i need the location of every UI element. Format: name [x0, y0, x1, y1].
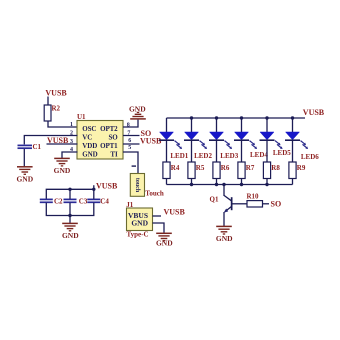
svg-text:C3: C3 — [79, 197, 88, 205]
svg-text:OPT2: OPT2 — [100, 125, 118, 133]
wire U1 pin5 to touch pad — [123, 152, 138, 174]
wire U1 pin8 to ground — [123, 120, 138, 127]
svg-text:TI: TI — [110, 150, 118, 158]
svg-text:R2: R2 — [52, 105, 61, 113]
svg-text:touch: touch — [134, 178, 140, 193]
svg-text:GND: GND — [156, 238, 173, 247]
wire C1 to ground — [23, 149, 25, 166]
svg-text:LED4: LED4 — [250, 151, 268, 159]
svg-text:VUSB: VUSB — [164, 208, 186, 217]
ground (U1 pin8, inverted) — [129, 104, 146, 119]
svg-text:C1: C1 — [33, 143, 42, 151]
ground (Q1) — [216, 226, 233, 242]
svg-text:Type-C: Type-C — [127, 231, 149, 239]
svg-text:SO: SO — [108, 134, 118, 142]
svg-text:GND: GND — [54, 166, 71, 175]
wire Q1 emitter to ground — [223, 212, 225, 226]
svg-text:GND: GND — [82, 150, 97, 158]
wire VUSB rail to LED2 — [191, 118, 193, 132]
capacitor C2 — [40, 197, 63, 205]
wire LED5 to R8 — [266, 141, 268, 162]
wire U1 pin3 — [47, 143, 78, 145]
svg-text:R5: R5 — [196, 164, 205, 172]
wire LED bottom rail — [167, 184, 293, 186]
svg-text:Touch: Touch — [145, 189, 164, 197]
ground (J1) — [156, 233, 173, 247]
svg-text:OSC: OSC — [82, 125, 96, 133]
wire J1 GND pin to ground — [153, 223, 165, 233]
svg-text:LED5: LED5 — [273, 149, 291, 157]
svg-text:GND: GND — [129, 104, 146, 113]
svg-text:6: 6 — [128, 138, 131, 144]
svg-text:R8: R8 — [271, 164, 280, 172]
svg-text:OPT1: OPT1 — [100, 142, 118, 150]
U1 pin numbers — [70, 122, 131, 153]
svg-text:LED6: LED6 — [301, 153, 319, 161]
svg-text:VUSB: VUSB — [45, 89, 67, 98]
IC U1 — [77, 113, 123, 159]
wire VUSB top rail — [167, 117, 306, 119]
connector J1 (Type-C) — [126, 201, 152, 239]
svg-text:C4: C4 — [100, 197, 109, 205]
wire rail to Q1 collector — [223, 185, 225, 197]
wire R6 to bottom rail — [216, 179, 218, 185]
LED LED3 — [209, 132, 239, 160]
wire LED3 to R6 — [216, 141, 218, 162]
wire LED2 to R5 — [191, 141, 193, 162]
wire U1 pin6 — [123, 143, 140, 145]
capacitor C4 — [87, 189, 109, 205]
resistor R5 — [188, 162, 205, 179]
LED LED2 — [184, 132, 212, 160]
power VUSB (top left, above R2) — [45, 89, 67, 105]
resistor R10 — [247, 192, 263, 207]
wire Q1 base to R10 — [233, 203, 248, 205]
svg-text:GND: GND — [131, 219, 148, 228]
polarity dash near touch wire — [132, 165, 136, 167]
ground (U1 pin4) — [54, 158, 71, 174]
svg-text:R6: R6 — [221, 164, 230, 172]
wire R7 to bottom rail — [241, 179, 243, 185]
svg-text:GND: GND — [16, 175, 33, 184]
wire U1 pin4 to ground — [62, 152, 78, 158]
resistor R7 — [238, 162, 255, 179]
LED LED1 — [159, 132, 189, 160]
transistor Q1 — [210, 195, 233, 212]
svg-text:VC: VC — [82, 134, 92, 142]
svg-text:VUSB: VUSB — [140, 137, 162, 146]
wire J1 VBUS pin — [153, 215, 162, 217]
junction dots (bottom rail) — [190, 183, 269, 186]
resistor R2 — [44, 105, 60, 122]
wire VUSB rail to LED1 — [166, 118, 168, 132]
svg-text:GND: GND — [216, 234, 233, 243]
wire U1 pin7 — [123, 135, 140, 137]
ground (below C1) — [16, 167, 33, 184]
wire U1 pin2 to C1 — [24, 136, 77, 145]
svg-text:U1: U1 — [77, 113, 86, 121]
LED LED6 — [285, 132, 319, 161]
resistor R9 — [289, 162, 306, 179]
svg-text:VDD: VDD — [82, 142, 97, 150]
capacitor C1 — [18, 143, 42, 151]
wire R10 to SO — [263, 203, 270, 205]
resistor R6 — [213, 162, 230, 179]
svg-text:LED3: LED3 — [220, 152, 238, 160]
svg-text:5: 5 — [128, 145, 131, 151]
wire R2 to U1 pin 1 — [48, 121, 78, 127]
junction dots (cap bank) — [68, 188, 95, 218]
resistor R8 — [263, 162, 280, 179]
wire R8 to bottom rail — [266, 179, 268, 185]
resistor R4 — [163, 162, 180, 179]
junction dots (top rail) — [190, 116, 294, 119]
ground (capacitor bank) — [62, 223, 79, 239]
wire LED6 to R9 — [292, 141, 294, 162]
svg-text:C2: C2 — [54, 197, 63, 205]
LED LED4 — [234, 132, 268, 159]
svg-text:R10: R10 — [247, 192, 260, 200]
svg-text:R9: R9 — [297, 164, 306, 172]
svg-text:1: 1 — [70, 122, 73, 128]
svg-text:SO: SO — [271, 199, 282, 208]
svg-text:R4: R4 — [171, 164, 180, 172]
wire VUSB rail to LED6 — [292, 118, 294, 132]
wire C3 bottom lead — [69, 203, 71, 216]
wire C2C3C4 bottom rail — [46, 203, 94, 216]
capacitor C3 — [64, 189, 88, 205]
wire cap bank to ground — [69, 216, 71, 223]
svg-text:GND: GND — [62, 231, 79, 240]
svg-text:LED1: LED1 — [170, 152, 188, 160]
wire VUSB rail to LED3 — [216, 118, 218, 132]
svg-text:VUSB: VUSB — [303, 108, 325, 117]
wire LED4 to R7 — [241, 141, 243, 162]
LED LED5 — [260, 132, 292, 157]
wire VUSB rail to LED5 — [266, 118, 268, 132]
wire VUSB rail to LED4 — [241, 118, 243, 132]
svg-text:LED2: LED2 — [194, 152, 212, 160]
wire C2C3C4 top rail with VUSB tick — [46, 185, 94, 199]
wire R5 to bottom rail — [191, 179, 193, 185]
svg-text:Q1: Q1 — [210, 196, 219, 204]
wire R4 to bottom rail — [166, 179, 168, 185]
svg-text:VUSB: VUSB — [96, 181, 118, 190]
touch pad Touch — [130, 174, 164, 198]
wire LED1 to R4 — [166, 141, 168, 162]
svg-text:R7: R7 — [246, 164, 255, 172]
wire R9 to bottom rail — [292, 179, 294, 185]
